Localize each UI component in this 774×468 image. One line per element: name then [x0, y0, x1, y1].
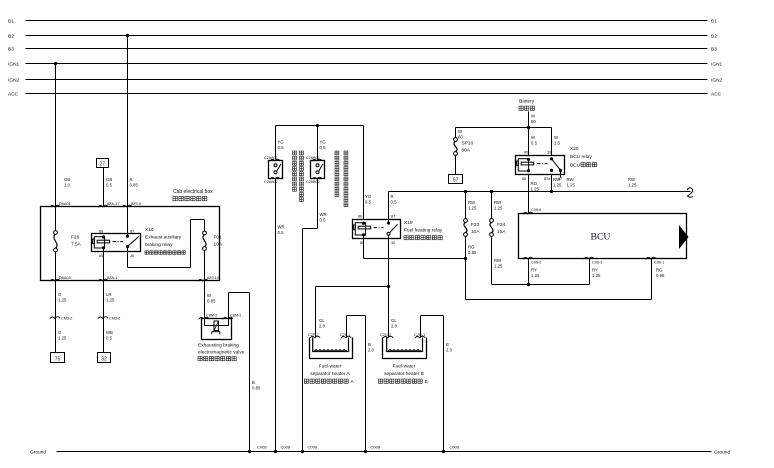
svg-text:1.0: 1.0	[64, 182, 71, 187]
svg-text:C8M-1: C8M-1	[230, 314, 241, 318]
svg-text:0.85: 0.85	[207, 298, 216, 303]
svg-text:30: 30	[547, 150, 551, 154]
svg-text:85: 85	[522, 177, 526, 181]
svg-text:RW: RW	[468, 200, 476, 205]
svg-text:0.5: 0.5	[320, 145, 327, 150]
svg-text:8ZA-17: 8ZA-17	[107, 202, 119, 206]
BCU box U1	[519, 214, 687, 259]
terminal 75	[51, 353, 65, 363]
svg-text:RW: RW	[553, 177, 561, 182]
svg-text:BCU: BCU	[570, 163, 581, 169]
svg-text:Fuel-water: Fuel-water	[319, 364, 342, 370]
svg-text:C008: C008	[308, 445, 318, 450]
BCU connector arrow	[679, 225, 689, 249]
svg-text:LR: LR	[106, 292, 112, 297]
ground bus wire	[57, 451, 712, 453]
connector pin C06-1 on BCU bottom	[646, 257, 656, 259]
svg-text:30: 30	[130, 254, 134, 258]
bus B3 wire	[26, 48, 708, 50]
wire X10 coil bottom	[103, 248, 105, 353]
svg-text:27: 27	[100, 161, 106, 167]
wire BCU pin b up	[589, 259, 591, 285]
wire X10 pin30 down	[127, 247, 129, 268]
connector pin 2X1-17 on cab box top	[98, 205, 108, 207]
svg-text:F01: F01	[214, 235, 223, 241]
wire valve right over	[229, 292, 250, 294]
connector pin C06-6 on BCU top	[523, 212, 533, 214]
wire to SP10	[455, 128, 457, 138]
wire main power bus	[389, 191, 691, 193]
svg-text:0.85: 0.85	[468, 250, 477, 255]
bus ACC wire	[26, 93, 708, 95]
svg-text:BCU relay: BCU relay	[570, 154, 592, 160]
svg-text:10A: 10A	[471, 229, 480, 235]
relay X20 contact 87a node	[550, 169, 553, 172]
wire X19 pin87 to power bus	[388, 192, 390, 224]
connector pin on S1 bottom	[270, 177, 280, 179]
svg-text:86: 86	[358, 214, 362, 218]
wire battery down	[528, 112, 530, 156]
relay X19 switch blade	[390, 224, 398, 232]
svg-text:0.5: 0.5	[106, 335, 113, 340]
svg-text:Fuel-water: Fuel-water	[393, 364, 416, 370]
connector pin 8X2-5 on cab box top	[122, 205, 132, 207]
svg-text:32: 32	[101, 357, 107, 363]
connector pin C2G-1 on heater B	[415, 336, 425, 338]
svg-text:F34: F34	[497, 222, 506, 228]
svg-text:RG: RG	[656, 268, 663, 273]
svg-text:0.5: 0.5	[278, 230, 285, 235]
wire switch bus down to X19 coil	[363, 126, 365, 220]
wire heater A return up	[346, 316, 348, 338]
wire X20 pin30 top lead	[551, 128, 553, 156]
svg-text:B: B	[252, 380, 255, 385]
svg-text:85: 85	[99, 254, 103, 258]
relay X10 box	[92, 234, 141, 252]
svg-text:F20: F20	[71, 235, 80, 241]
switch S2 contacts	[316, 164, 319, 167]
svg-text:1.5: 1.5	[554, 140, 561, 145]
wire F01 bottom to valve	[204, 250, 206, 318]
svg-text:1.25: 1.25	[58, 335, 67, 340]
connector pin on S2 top	[312, 159, 322, 161]
svg-text:electromagnetic valve: electromagnetic valve	[198, 350, 245, 356]
wire F01 top lead	[204, 220, 206, 232]
svg-text:RG: RG	[468, 245, 475, 250]
svg-text:2.0: 2.0	[391, 323, 398, 328]
svg-text:B3: B3	[8, 47, 14, 53]
svg-text:RY: RY	[531, 268, 537, 273]
svg-text:braking relay: braking relay	[145, 242, 173, 248]
svg-text:C06-6: C06-6	[531, 208, 541, 212]
svg-text:B3: B3	[711, 47, 717, 53]
svg-text:RW: RW	[494, 258, 502, 263]
svg-text:IGN2: IGN2	[711, 78, 723, 84]
connector pin C8M-2 on valve	[199, 317, 209, 319]
relay X19 coil bottom node	[362, 233, 365, 236]
svg-text:86: 86	[99, 229, 103, 233]
svg-text:YG: YG	[320, 140, 327, 145]
fuse F33 10A	[464, 219, 468, 223]
svg-text:B1: B1	[8, 19, 14, 25]
relay X10 coil bottom node	[102, 246, 105, 249]
node IGN1 tap	[54, 62, 57, 65]
node S1 ground	[274, 450, 277, 453]
svg-text:1.25: 1.25	[468, 205, 477, 210]
wire X10 pin30 up	[190, 220, 192, 268]
svg-text:0.5: 0.5	[365, 199, 372, 204]
svg-text:X10: X10	[145, 227, 154, 233]
wire X19 pin30 to heaters	[388, 235, 390, 337]
svg-text:1.25: 1.25	[531, 186, 540, 191]
svg-text:C8M-2: C8M-2	[206, 314, 217, 318]
svg-text:Exhaust auxiliary: Exhaust auxiliary	[145, 235, 182, 241]
node B2 tap	[126, 34, 129, 37]
bus IGN2 wire	[26, 79, 708, 81]
wire S2 down	[317, 179, 319, 229]
svg-text:WB: WB	[106, 330, 113, 335]
wire heater A return over	[347, 315, 366, 317]
wire S2 jog	[303, 228, 318, 230]
svg-text:15A: 15A	[497, 229, 506, 235]
svg-text:86: 86	[524, 150, 528, 154]
svg-text:0.5: 0.5	[106, 182, 113, 187]
switch S1 contacts	[274, 164, 277, 167]
switch S1 vertical name label	[293, 151, 297, 155]
wire X19 pin85 down	[363, 235, 365, 259]
terminal 27	[97, 159, 109, 168]
relay X20 coil	[518, 159, 528, 171]
svg-text:B: B	[446, 342, 449, 347]
svg-text:75: 75	[55, 357, 61, 363]
wire terminal27 to cab box	[103, 167, 105, 207]
svg-text:C2G-2: C2G-2	[380, 333, 391, 337]
bus B1 wire	[26, 20, 708, 22]
bus B2 wire	[26, 35, 708, 37]
node BCU supply junction	[527, 283, 530, 286]
inline connector CM3-2	[50, 317, 60, 319]
svg-text:B2: B2	[8, 34, 14, 40]
relay X10 contact bottom node pin 30	[126, 245, 129, 248]
solenoid valve plunger	[212, 331, 220, 333]
svg-text:WR: WR	[278, 225, 285, 230]
svg-text:C008: C008	[281, 445, 291, 450]
relay X20 coil top node	[527, 158, 530, 161]
connector pin DX01 on cab box bottom	[50, 279, 60, 281]
relay X10 dash-dot link	[113, 241, 124, 243]
svg-text:87: 87	[130, 229, 134, 233]
svg-text:0.5: 0.5	[320, 217, 327, 222]
wire heater A feed horizontal	[316, 286, 389, 288]
wire valve return to ground	[249, 293, 251, 452]
svg-text:IGN1: IGN1	[8, 62, 20, 68]
svg-text:separator heater B: separator heater B	[384, 371, 424, 377]
svg-text:C008: C008	[257, 445, 267, 450]
connector pin DX01 on cab box top	[50, 205, 60, 207]
connector pin 8X2-10 on cab box bottom	[198, 279, 208, 281]
heater B outer vessel	[383, 338, 427, 359]
power bus continuation curl	[687, 188, 693, 197]
svg-text:GL: GL	[319, 318, 325, 323]
node F33 X19 junction	[464, 257, 467, 260]
relay X20 contact top node	[550, 157, 553, 160]
switch S1 blade	[277, 164, 281, 172]
relay X19 dash-dot link	[374, 227, 384, 229]
svg-text:C06-1: C06-1	[654, 261, 664, 265]
svg-text:B1: B1	[711, 19, 717, 25]
svg-text:C06-2: C06-2	[531, 261, 541, 265]
svg-text:8Z9-5: 8Z9-5	[131, 202, 141, 206]
wire X10 pin30 to F01 top	[191, 219, 205, 221]
svg-text:8ZA-1: 8ZA-1	[107, 276, 117, 280]
svg-text:60: 60	[458, 134, 463, 139]
solenoid valve inner header	[205, 319, 229, 326]
svg-text:0.85: 0.85	[656, 273, 665, 278]
relay X10 contact top node pin 87	[126, 235, 129, 238]
svg-text:W: W	[531, 135, 536, 140]
svg-text:Ground: Ground	[30, 450, 46, 456]
wire S2 to ground	[302, 229, 304, 452]
svg-text:C26B01: C26B01	[306, 156, 320, 160]
svg-text:RW: RW	[494, 200, 502, 205]
svg-text:D6A03: D6A03	[59, 276, 71, 280]
svg-text:1.25: 1.25	[494, 205, 503, 210]
svg-text:2.0: 2.0	[368, 347, 375, 352]
svg-text:C26A01: C26A01	[264, 156, 278, 160]
relay X19 contact bottom node	[387, 232, 390, 235]
svg-text:separator heater A: separator heater A	[310, 371, 350, 377]
wire SP10 to terminal 57	[455, 155, 457, 174]
wire X20 pin87a to power bus	[551, 175, 553, 192]
relay X10 coil top node	[102, 235, 105, 238]
svg-text:R: R	[391, 194, 394, 199]
svg-text:R: R	[130, 177, 133, 182]
svg-text:0.5: 0.5	[531, 140, 538, 145]
svg-text:SP10: SP10	[462, 141, 474, 147]
svg-text:W: W	[531, 114, 536, 119]
wire heater B return up	[420, 316, 422, 338]
svg-text:60A: 60A	[462, 148, 471, 154]
relay X10 switch blade	[128, 237, 139, 247]
connector pin C06-3 on BCU bottom	[584, 257, 594, 259]
wire heater B return over	[421, 315, 444, 317]
svg-text:30: 30	[391, 241, 395, 245]
svg-text:1.25: 1.25	[592, 273, 601, 278]
wire F34 bottom	[491, 236, 493, 284]
wire S2 top lead	[317, 126, 319, 161]
svg-text:2.0: 2.0	[319, 323, 326, 328]
svg-text:0.5: 0.5	[391, 199, 398, 204]
heater B inner vessel	[387, 338, 423, 352]
terminal 57	[449, 175, 463, 184]
svg-text:CM3-2: CM3-2	[61, 317, 72, 321]
svg-text:CM3-6: CM3-6	[109, 317, 120, 321]
heater A element	[314, 350, 347, 352]
wire heater A return to ground	[365, 316, 367, 452]
svg-text:ACC: ACC	[711, 92, 722, 98]
switch S2 blade	[319, 164, 323, 172]
relay X20 dash-dot link	[537, 163, 548, 165]
switch S1 box	[269, 161, 283, 179]
node battery junction	[527, 126, 530, 129]
connector pin on S2 bottom	[312, 177, 322, 179]
svg-text:IGN1: IGN1	[711, 62, 723, 68]
wire X20 coil bottom to BCU	[528, 175, 530, 214]
svg-text:RW: RW	[567, 177, 575, 182]
svg-text:B: B	[368, 342, 371, 347]
svg-text:Battery: Battery	[519, 99, 535, 105]
svg-text:IGN2: IGN2	[8, 78, 20, 84]
battery distribution wire	[456, 127, 552, 129]
connector pin C8M-1 on valve	[223, 317, 233, 319]
svg-text:X20: X20	[570, 146, 579, 152]
wire F33 top lead	[465, 192, 467, 219]
wire heater A feed down	[315, 287, 317, 338]
node valve ground	[248, 450, 251, 453]
relay X20 switch blade	[552, 159, 561, 170]
relay X10 coil	[94, 237, 104, 248]
relay X19 coil top node	[362, 222, 365, 225]
svg-text:2.0: 2.0	[446, 347, 453, 352]
svg-text:87a: 87a	[544, 177, 551, 181]
wire switch bus	[276, 125, 364, 127]
connector pin C06-2 on BCU bottom	[523, 257, 533, 259]
relay X20 contact 87 node	[559, 169, 562, 172]
relay X19 contact top node	[387, 221, 390, 224]
svg-text:10A: 10A	[214, 242, 223, 248]
node heater A ground	[364, 450, 367, 453]
svg-text:ACC: ACC	[8, 92, 19, 98]
wire S1 top lead	[275, 126, 277, 161]
svg-text:GL: GL	[391, 318, 397, 323]
relay X20 box	[516, 156, 565, 175]
svg-text:GB: GB	[106, 177, 112, 182]
connector pin on S1 top	[270, 159, 280, 161]
svg-text:57: 57	[453, 178, 459, 184]
solenoid valve coil	[214, 321, 219, 331]
switch S2 box	[311, 161, 325, 179]
wire X19 pin85 horizontal	[364, 258, 466, 260]
svg-text:Fuel heating relay: Fuel heating relay	[404, 228, 443, 234]
svg-text:0.85: 0.85	[252, 385, 261, 390]
svg-text:D6A01: D6A01	[59, 202, 71, 206]
svg-text:C008: C008	[371, 445, 381, 450]
heater A outer vessel	[310, 338, 353, 359]
svg-text:G: G	[58, 330, 62, 335]
connector pin C2F-2 on heater A	[310, 336, 320, 338]
wire F33 horizontal to BCU	[466, 299, 652, 301]
cab electrical box outline	[41, 207, 220, 281]
svg-text:W: W	[207, 293, 212, 298]
svg-text:W: W	[458, 129, 463, 134]
node X20 output on power bus	[550, 190, 553, 193]
wire F20 bottom to terminal 75	[55, 252, 57, 353]
fuse F20 7.5A	[54, 231, 58, 235]
heater A inner vessel	[313, 338, 349, 352]
svg-text:Exhausting braking: Exhausting braking	[198, 343, 239, 349]
svg-text:C008: C008	[450, 445, 460, 450]
relay X19 coil	[355, 223, 365, 235]
relay X19 box	[353, 220, 401, 239]
wire S1 to ground	[275, 179, 277, 452]
svg-text:B2: B2	[711, 34, 717, 40]
node heater B ground	[442, 450, 445, 453]
svg-text:A: A	[351, 379, 355, 385]
fuse F34 15A	[490, 219, 494, 223]
svg-text:X19: X19	[404, 220, 413, 226]
node heater feed junction	[387, 285, 390, 288]
svg-text:YG: YG	[365, 194, 372, 199]
svg-text:WR: WR	[320, 212, 327, 217]
heater B element	[388, 350, 421, 352]
wire heater B return to ground	[443, 316, 445, 452]
connector pin C2G-2 on heater B	[383, 336, 393, 338]
wire BCU pin a up	[528, 259, 530, 285]
svg-text:0.5: 0.5	[278, 145, 285, 150]
svg-text:1.25: 1.25	[628, 182, 637, 187]
fuse SP10 60A	[454, 138, 458, 142]
switch S2 vertical name label	[335, 151, 339, 155]
svg-text:1.25: 1.25	[553, 182, 562, 187]
wire F34 top lead	[491, 192, 493, 219]
svg-text:C2F-2: C2F-2	[308, 333, 319, 337]
fuse F01 10A	[203, 231, 207, 235]
node F34 tap	[490, 190, 493, 193]
svg-text:BCU: BCU	[591, 232, 611, 243]
terminal 32	[98, 353, 111, 363]
inline connector CM3-6	[98, 317, 108, 319]
svg-text:GB: GB	[64, 177, 70, 182]
svg-text:1.25: 1.25	[106, 297, 115, 302]
relay X20 pin 87 stub	[560, 170, 562, 177]
svg-text:RO: RO	[531, 181, 538, 186]
node S2 ground	[301, 450, 304, 453]
svg-text:60: 60	[531, 119, 536, 124]
connector pin 2X1-1 on cab box bottom	[98, 279, 108, 281]
solenoid valve outline	[202, 319, 232, 340]
svg-text:87: 87	[391, 214, 395, 218]
wire F33 bottom	[465, 236, 467, 299]
svg-text:Ground: Ground	[714, 450, 730, 456]
svg-text:1.25: 1.25	[58, 297, 67, 302]
svg-text:C2G-1: C2G-1	[414, 333, 425, 337]
bus IGN1 wire	[26, 63, 708, 65]
connector pin C2F-1 on heater A	[341, 336, 351, 338]
svg-text:7.5A: 7.5A	[71, 242, 82, 248]
wire valve right up	[228, 293, 230, 319]
wire X10 pin30 horizontal	[128, 267, 191, 269]
wire B2 to X10 pin 87	[127, 36, 129, 237]
svg-text:RW: RW	[628, 177, 636, 182]
wire IGN1 to F20	[55, 64, 57, 231]
node F33 tap	[464, 190, 467, 193]
svg-text:1.25: 1.25	[531, 273, 540, 278]
svg-text:B: B	[425, 379, 428, 385]
svg-text:RY: RY	[592, 268, 598, 273]
node switch bus junction	[316, 124, 319, 127]
wire F34 horizontal	[492, 284, 590, 286]
svg-text:C2F-1: C2F-1	[340, 333, 351, 337]
svg-text:F33: F33	[471, 222, 480, 228]
wire BCU pin right up	[651, 259, 653, 300]
svg-text:Cab electrical box: Cab electrical box	[173, 189, 213, 195]
svg-text:W: W	[554, 135, 559, 140]
svg-text:G: G	[58, 292, 62, 297]
svg-text:1.25: 1.25	[567, 182, 576, 187]
svg-text:0.85: 0.85	[130, 182, 139, 187]
svg-text:8Z9-10: 8Z9-10	[207, 276, 219, 280]
svg-text:1.25: 1.25	[494, 263, 503, 268]
